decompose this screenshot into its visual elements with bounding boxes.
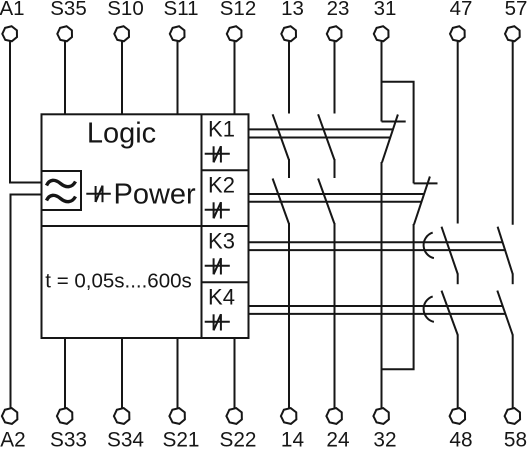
- svg-text:S10: S10: [107, 0, 143, 20]
- wire S22 to logic block: [234, 338, 236, 408]
- terminal S22: [219, 408, 256, 449]
- svg-text:23: 23: [327, 0, 350, 20]
- logic block outline U1: [42, 114, 249, 338]
- wire to terminal 32: [381, 162, 383, 408]
- NO contact 13-14 (K2): [273, 179, 289, 224]
- divider K1/K2: [202, 169, 249, 171]
- K2 actuation linkage lines: [249, 193, 425, 195]
- svg-text:A2: A2: [0, 428, 25, 449]
- svg-text:t = 0,05s....600s: t = 0,05s....600s: [45, 269, 191, 292]
- NO contact 23-24 (K1): [318, 114, 334, 159]
- svg-text:K2: K2: [208, 173, 235, 198]
- branch wire 31 to K2 NC contact: [382, 82, 414, 184]
- terminal S33: [50, 408, 87, 449]
- terminal 58: [504, 408, 527, 449]
- power rectifier diode D1: [86, 186, 111, 203]
- svg-text:48: 48: [449, 428, 472, 449]
- K4 actuation linkage lines: [249, 305, 503, 307]
- wire from terminal 47: [457, 41, 459, 223]
- wire between contacts 57-58: [512, 274, 514, 285]
- relay coil K3: [205, 229, 235, 275]
- svg-text:S35: S35: [50, 0, 86, 20]
- terminal 24: [326, 408, 349, 449]
- svg-text:S11: S11: [164, 0, 199, 20]
- NO contact 23-24 (K2): [318, 179, 334, 224]
- svg-text:31: 31: [374, 0, 397, 20]
- wire S35 to logic block: [64, 41, 66, 114]
- time-delay symbol on K3 contacts: [424, 233, 434, 259]
- svg-text:58: 58: [504, 428, 527, 449]
- wire A2 to power supply: [11, 195, 42, 409]
- wire S11 to logic block: [177, 41, 179, 114]
- terminal 47: [450, 0, 473, 41]
- wire S12 to logic block: [234, 41, 236, 114]
- terminal S34: [107, 408, 144, 449]
- terminal S12: [220, 0, 256, 41]
- wire S33 to logic block: [64, 338, 66, 408]
- wire S10 to logic block: [121, 41, 123, 114]
- svg-text:14: 14: [281, 428, 304, 449]
- relay coil K4: [205, 285, 235, 331]
- wire to terminal 24: [334, 223, 336, 408]
- terminal 14: [281, 408, 304, 449]
- svg-text:S22: S22: [219, 428, 256, 449]
- svg-text:S33: S33: [50, 428, 87, 449]
- relay coil K1: [205, 117, 235, 163]
- NO delayed contact 57-58 (K3): [498, 227, 513, 274]
- terminal S35: [50, 0, 86, 41]
- divider main/K-column: [201, 114, 203, 338]
- svg-text:Logic: Logic: [87, 117, 156, 149]
- NO delayed contact 47-48 (K4): [442, 291, 458, 335]
- svg-text:K1: K1: [208, 117, 235, 142]
- terminal 23: [327, 0, 350, 41]
- svg-text:32: 32: [373, 428, 396, 449]
- wire S21 to logic block: [177, 338, 179, 408]
- wire S34 to logic block: [121, 338, 123, 408]
- wire to terminal 14: [288, 223, 290, 408]
- wire between contacts 23-24: [334, 159, 336, 178]
- wire between contacts 47-48: [457, 274, 459, 285]
- svg-text:Power: Power: [114, 179, 197, 211]
- svg-text:13: 13: [281, 0, 304, 20]
- wire from terminal 23: [334, 41, 336, 113]
- svg-text:S21: S21: [162, 428, 199, 449]
- NO delayed contact 57-58 (K4): [497, 291, 512, 335]
- terminal A2: [0, 408, 25, 449]
- svg-text:A1: A1: [0, 0, 25, 20]
- terminal 31: [374, 0, 397, 41]
- relay coil K2: [205, 173, 235, 219]
- K1 actuation linkage lines: [249, 128, 393, 130]
- wire from terminal 31: [381, 41, 383, 121]
- svg-text:K4: K4: [208, 285, 235, 310]
- wire to terminal 48: [457, 335, 459, 409]
- wire from terminal 57: [512, 41, 514, 224]
- terminal 48: [449, 408, 472, 449]
- wire to terminal 58: [512, 335, 514, 409]
- time-delay symbol on K4 contacts: [424, 296, 434, 322]
- AC supply box with sine symbol: [42, 171, 82, 210]
- wire between contacts 13-14: [288, 159, 290, 178]
- NC contact 31-32 (K1) seat bar: [382, 121, 406, 123]
- terminal S11: [164, 0, 199, 41]
- svg-text:57: 57: [505, 0, 528, 20]
- svg-text:24: 24: [326, 428, 349, 449]
- NC contact 31-32 (K2) blade: [414, 177, 430, 225]
- return wire K2 NC contact to terminal 32: [382, 224, 414, 369]
- terminal S10: [107, 0, 143, 41]
- terminal 13: [281, 0, 304, 41]
- NC contact 31-32 (K2) seat bar: [414, 182, 438, 184]
- svg-text:47: 47: [450, 0, 473, 20]
- NO contact 13-14 (K1): [273, 114, 289, 159]
- terminal 32: [373, 408, 396, 449]
- NC contact 31-32 (K1) blade: [382, 115, 398, 163]
- svg-text:S34: S34: [107, 428, 144, 449]
- NO delayed contact 47-48 (K3): [442, 227, 458, 274]
- terminal 57: [505, 0, 528, 41]
- divider K3/K4: [202, 281, 249, 283]
- svg-text:K3: K3: [208, 229, 235, 254]
- divider logic/timer: [42, 225, 249, 227]
- terminal S21: [162, 408, 199, 449]
- K3 actuation linkage lines: [249, 241, 504, 243]
- wire from terminal 13: [288, 41, 290, 113]
- svg-text:S12: S12: [220, 0, 256, 20]
- terminal A1: [0, 0, 25, 41]
- wire A1 to power supply: [10, 41, 42, 182]
